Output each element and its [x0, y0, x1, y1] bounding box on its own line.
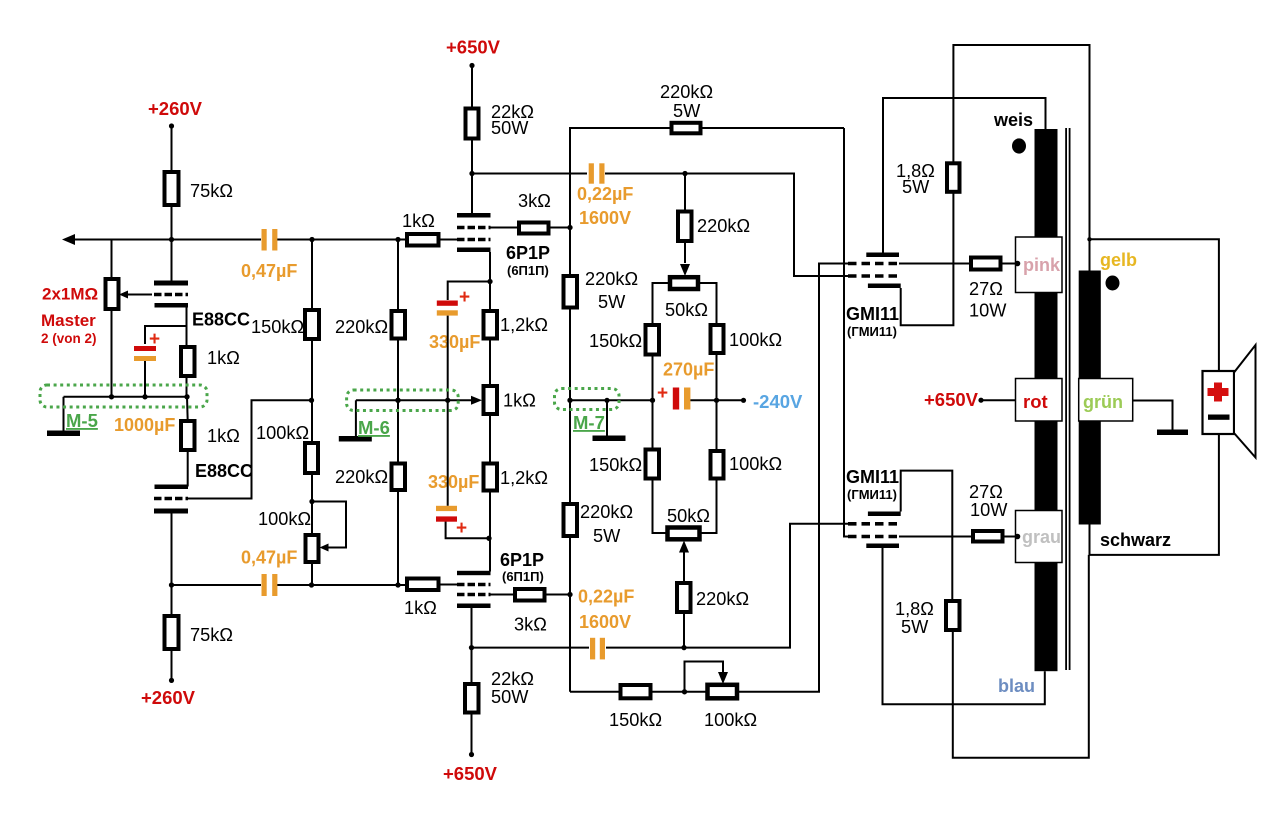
wire (grid2 V6 rail) [844, 128, 848, 537]
arrow down onto P6 [718, 672, 728, 684]
wire [1001, 263, 1017, 265]
wire (gruen to ground) [1133, 401, 1173, 430]
resistor R27 27&#937; [971, 258, 1001, 270]
tube V2 E88CC cathode [155, 485, 189, 490]
svg-text:100kΩ: 100kΩ [729, 330, 782, 350]
svg-text:22kΩ: 22kΩ [491, 669, 534, 689]
wire (top row) [172, 239, 262, 241]
tube V4 6P1P grid1 [457, 583, 491, 587]
node H [395, 582, 400, 587]
svg-text:GMI11: GMI11 [846, 467, 899, 487]
svg-text:0,47µF: 0,47µF [241, 261, 297, 281]
wire [311, 339, 313, 400]
speaker terminal box [1203, 371, 1235, 434]
node secondary top junction [1087, 237, 1091, 241]
ground speaker return [1157, 430, 1188, 436]
svg-text:150kΩ: 150kΩ [589, 455, 642, 475]
wire [701, 127, 845, 129]
svg-text:+: + [657, 383, 668, 404]
svg-text:1600V: 1600V [579, 208, 631, 228]
svg-text:weis: weis [993, 110, 1033, 130]
node S [604, 398, 609, 403]
wiper wire P2 [312, 502, 346, 548]
capacitor C5 330uF minus bar [437, 310, 458, 315]
resistor R9 22k&#937; 50W [466, 109, 479, 139]
wire [311, 400, 313, 443]
tube V6 GMI11 grid1 [848, 522, 899, 526]
transformer primary winding bar B [1035, 291, 1058, 379]
svg-text:5W: 5W [593, 526, 621, 546]
wire (M-6 bus) [356, 399, 473, 401]
wire [698, 283, 717, 325]
wiper wire P1 [127, 294, 152, 296]
svg-text:M-5: M-5 [66, 410, 98, 431]
svg-text:grün: grün [1083, 392, 1123, 412]
svg-text:blau: blau [998, 676, 1035, 696]
svg-text:+650V: +650V [446, 37, 501, 58]
node -240V [741, 398, 746, 403]
arrow output left [62, 234, 75, 245]
node C [309, 237, 314, 242]
capacitor C9 0,22uF bar1 [590, 638, 595, 660]
resistor R3 1k&#937; [181, 421, 195, 450]
wire [684, 241, 686, 263]
svg-text:0,22µF: 0,22µF [577, 184, 633, 204]
wire [111, 240, 113, 280]
potentiometer P5 50k&#937; [668, 528, 700, 540]
wire (cathode V1 down) [186, 308, 188, 348]
phase dot weis [1012, 138, 1026, 153]
svg-text:(6П1П): (6П1П) [502, 569, 544, 584]
svg-text:5W: 5W [598, 292, 626, 312]
wire [277, 239, 407, 241]
wire (output to master pot, arrow left) [112, 239, 172, 241]
wire [311, 562, 313, 585]
wire (V2 grid feedback) [188, 400, 312, 498]
capacitor C1 0,47uF bar2 [272, 229, 277, 251]
wire [171, 649, 173, 680]
wire [737, 264, 848, 692]
wire [171, 585, 173, 616]
tap box grau [1016, 511, 1063, 563]
resistor R7 220k&#937; [392, 311, 406, 339]
svg-text:1,8Ω: 1,8Ω [895, 599, 934, 619]
tube V1 E88CC grid [154, 293, 188, 297]
capacitor C2 1000uF plus bar [134, 346, 156, 351]
svg-text:E88CC: E88CC [195, 461, 253, 481]
svg-text:1,2kΩ: 1,2kΩ [500, 315, 548, 335]
capacitor C9 0,22uF bar2 [600, 638, 605, 660]
resistor R8 220k&#937; [392, 464, 406, 491]
wire (V4 plate down) [471, 608, 473, 684]
wire [549, 227, 571, 229]
speaker cone [1234, 345, 1256, 458]
wire [171, 205, 173, 240]
resistor R19 220k&#937; 5W [564, 504, 578, 536]
wire [700, 479, 717, 534]
capacitor C4 0,47uF bar2 [272, 574, 277, 596]
wire (cathode branch to C2) [145, 326, 187, 344]
wire (V5 screen tap) [899, 263, 971, 265]
svg-text:M-7: M-7 [573, 412, 605, 433]
svg-text:10W: 10W [969, 301, 1007, 321]
wire [651, 691, 708, 693]
svg-text:5W: 5W [902, 177, 930, 197]
wire [489, 414, 491, 464]
resistor R16 22k&#937; 50W [465, 684, 479, 713]
svg-text:220kΩ: 220kΩ [335, 317, 388, 337]
potentiometer P6 100k&#937; [708, 685, 738, 699]
wire (branch to C5) [448, 282, 490, 301]
resistor R18 220k&#937; 5W [564, 276, 578, 308]
resistor R2 1k&#937; [181, 347, 195, 376]
svg-text:220kΩ: 220kΩ [580, 502, 633, 522]
node B (V2 plate node) [169, 582, 174, 587]
svg-text:E88CC: E88CC [192, 310, 250, 330]
capacitor C6 330uF minus bar [436, 506, 457, 511]
svg-text:27Ω: 27Ω [969, 279, 1003, 299]
tube V5 GMI11 grid1 [848, 274, 899, 278]
node D [309, 398, 314, 403]
capacitor C7 0,22uF bar2 [599, 163, 604, 183]
wire [397, 240, 399, 312]
resistor R22 100k&#937; [711, 325, 724, 353]
svg-text:1kΩ: 1kΩ [503, 391, 536, 411]
wire (grid2 V4 to R15) [491, 594, 516, 596]
wire (V6 cathode) [901, 471, 953, 601]
node N [445, 398, 450, 403]
ground M-6 [339, 436, 372, 442]
resistor R13 1,2k&#937; [484, 464, 498, 491]
node +260V (top supply) [169, 123, 174, 128]
tube V5 GMI11 plate [866, 253, 899, 258]
capacitor C8 270uF plus bar [673, 388, 679, 410]
node E [309, 499, 314, 504]
transformer primary winding bar C1 [1035, 421, 1058, 511]
resistor R12 1,2k&#937; [484, 311, 498, 339]
tube V1 E88CC plate [154, 281, 188, 286]
wire [111, 309, 113, 397]
svg-text:6P1P: 6P1P [506, 243, 550, 263]
node X [682, 689, 687, 694]
svg-text:75kΩ: 75kΩ [190, 181, 233, 201]
speaker minus sign [1208, 415, 1230, 420]
capacitor C5 330uF plus bar [437, 301, 458, 306]
resistor R17 220k&#937; 5W [672, 123, 701, 134]
svg-text:100kΩ: 100kΩ [258, 509, 311, 529]
resistor R4 75k&#937; [165, 616, 179, 649]
resistor R24 100k&#937; [711, 451, 724, 479]
wire [653, 283, 671, 325]
wire (secondary top to speaker) [1090, 239, 1219, 371]
node M [395, 398, 400, 403]
resistor R14 1k&#937; [407, 579, 439, 591]
svg-text:50kΩ: 50kΩ [665, 300, 708, 320]
resistor R30 1,8&#937; 5W [946, 601, 960, 630]
measure box M-6 [347, 390, 459, 411]
svg-text:150kΩ: 150kΩ [589, 331, 642, 351]
resistor R28 1,8&#937; 5W [947, 163, 960, 192]
wire [471, 139, 473, 214]
svg-text:gelb: gelb [1100, 250, 1137, 270]
wire (M-5 bus) [64, 396, 188, 398]
node V [714, 398, 719, 403]
wire [683, 553, 685, 584]
tube V5 GMI11 grid2 [848, 262, 899, 266]
wire [144, 361, 146, 397]
svg-text:(ГМИ11): (ГМИ11) [847, 324, 897, 339]
wire [439, 584, 458, 586]
wire [397, 490, 399, 585]
tube V1 E88CC cathode [155, 303, 189, 308]
node J (6P1P-1 plate node) [469, 171, 474, 176]
wire [605, 174, 848, 277]
node +650V top [469, 63, 474, 68]
svg-text:GMI11: GMI11 [846, 304, 899, 324]
wire [171, 240, 173, 281]
svg-text:100kΩ: 100kΩ [704, 710, 757, 730]
wire (V3 cathode down) [489, 252, 491, 311]
svg-text:(6П1П): (6П1П) [507, 263, 549, 278]
wire (cathode fb bottom) [953, 555, 1089, 758]
svg-text:50W: 50W [491, 687, 529, 707]
node T [682, 171, 687, 176]
measure box M-5 [40, 385, 207, 407]
node M5 bus junction cathode [184, 394, 189, 399]
tube V5 GMI11 cathode [868, 284, 901, 289]
svg-text:1kΩ: 1kΩ [402, 211, 435, 231]
wire (y=647.6 coupling row) [472, 647, 590, 649]
resistor R11 3k&#937; [519, 223, 549, 234]
wire (M-7 bus) [570, 399, 652, 401]
capacitor C8 270uF minus bar [684, 388, 690, 410]
svg-text:150kΩ: 150kΩ [251, 317, 304, 337]
speaker plus sign [1208, 383, 1229, 402]
node Q (V4 plate node) [469, 645, 474, 650]
wire (y=173.5 coupling row) [472, 173, 587, 175]
svg-text:Master: Master [41, 311, 96, 330]
svg-text:220kΩ: 220kΩ [696, 589, 749, 609]
capacitor C2 1000uF minus bar [134, 356, 156, 361]
tap box gruen [1079, 379, 1133, 422]
capacitor C7 0,22uF bar1 [589, 163, 594, 183]
svg-text:220kΩ: 220kΩ [585, 269, 638, 289]
wire [277, 584, 407, 586]
svg-text:220kΩ: 220kΩ [697, 216, 750, 236]
transformer core line 2 [1069, 128, 1071, 670]
transformer secondary winding bar D [1079, 271, 1101, 379]
capacitor C4 0,47uF bar1 [262, 574, 267, 596]
wire (cathode fb top) [953, 45, 1089, 271]
svg-text:2 (von 2): 2 (von 2) [41, 331, 97, 346]
tube V3 6P1P plate [457, 213, 491, 218]
svg-text:5W: 5W [901, 617, 929, 637]
wire (bottom row) [172, 584, 262, 586]
wire [447, 316, 449, 401]
svg-text:330µF: 330µF [429, 332, 480, 352]
wire [471, 713, 473, 755]
transformer core line 1 [1065, 128, 1067, 670]
svg-text:1kΩ: 1kΩ [404, 598, 437, 618]
resistor R15 3k&#937; [515, 589, 545, 601]
wire [569, 308, 571, 505]
svg-text:5W: 5W [673, 101, 701, 121]
transformer secondary winding bar E [1079, 421, 1101, 525]
potentiometer P1 2x1M&#937; [106, 279, 119, 309]
wiper arrow P1 [119, 291, 128, 299]
svg-text:1600V: 1600V [579, 612, 631, 632]
tube V4 6P1P grid2 [457, 593, 491, 597]
resistor R10 1k&#937; [407, 234, 439, 246]
wire [75, 239, 112, 241]
wire [683, 612, 685, 648]
capacitor C1 0,47uF bar1 [262, 229, 267, 251]
wire (V2 plate down) [171, 514, 173, 586]
svg-text:2x1MΩ: 2x1MΩ [42, 285, 98, 304]
wire [397, 339, 399, 464]
svg-text:+: + [456, 518, 467, 539]
svg-text:75kΩ: 75kΩ [190, 625, 233, 645]
svg-text:10W: 10W [970, 500, 1008, 520]
svg-text:100kΩ: 100kΩ [256, 423, 309, 443]
node M5 bus junction pot [109, 394, 114, 399]
node +650V rot wire [978, 398, 983, 403]
wire [311, 473, 313, 535]
node Y (pink tap) [1015, 261, 1021, 267]
wire (secondary bottom / schwarz) [1090, 434, 1219, 555]
node F [309, 582, 314, 587]
tube V3 6P1P grid2 [457, 226, 491, 230]
wire [311, 240, 313, 311]
svg-text:1kΩ: 1kΩ [207, 426, 240, 446]
node +650V bottom [469, 752, 474, 757]
potentiometer P2 100k&#937; [306, 535, 319, 562]
wiper link P6 [685, 662, 724, 692]
resistor R20 220k&#937; [678, 212, 692, 242]
wire [1003, 536, 1017, 538]
wire [187, 450, 189, 487]
resistor R29 27&#937; [973, 531, 1003, 542]
wire (screen rail top bend) [570, 128, 672, 228]
svg-text:220kΩ: 220kΩ [660, 82, 713, 102]
wire [569, 228, 571, 277]
svg-text:+: + [149, 329, 160, 350]
wire [981, 399, 1016, 401]
node I [395, 398, 400, 403]
resistor R25 220k&#937; [677, 583, 691, 612]
wire [652, 355, 654, 450]
potentiometer P4 50k&#937; [670, 277, 698, 289]
svg-text:+650V: +650V [924, 389, 979, 410]
phase dot gelb [1106, 276, 1120, 291]
node W [681, 645, 686, 650]
tube V4 6P1P cathode [457, 571, 491, 575]
node M5 bus junction cap [142, 394, 147, 399]
svg-text:+260V: +260V [141, 687, 196, 708]
wire (branch to C6) [446, 522, 489, 539]
wire [186, 376, 188, 397]
resistor R21 150k&#937; [646, 325, 660, 355]
resistor R6 100k&#937; [305, 443, 318, 473]
node P [567, 592, 572, 597]
svg-text:rot: rot [1023, 391, 1048, 412]
tube V3 6P1P cathode [457, 248, 491, 253]
svg-text:(ГМИ11): (ГМИ11) [847, 487, 897, 502]
node +260V bottom [169, 678, 174, 683]
svg-text:-240V: -240V [753, 391, 803, 412]
wire [171, 126, 173, 172]
tube V6 GMI11 grid2 [848, 535, 899, 539]
tube V2 E88CC plate [154, 509, 188, 514]
svg-text:100kΩ: 100kΩ [729, 454, 782, 474]
wire (grid2 V3 to R11) [491, 227, 520, 229]
tube V6 GMI11 plate [866, 544, 899, 549]
wire [606, 524, 848, 648]
wire [684, 174, 686, 212]
wire [716, 353, 718, 451]
wire (V5 plate up) [883, 98, 1046, 253]
wire [471, 66, 473, 109]
svg-text:1,2kΩ: 1,2kΩ [500, 468, 548, 488]
svg-text:220kΩ: 220kΩ [335, 467, 388, 487]
ground M-5 [47, 431, 80, 437]
capacitor C6 330uF plus bar [436, 516, 457, 521]
svg-text:0,22µF: 0,22µF [578, 587, 634, 607]
svg-text:+: + [459, 287, 470, 308]
wire (V5 cathode) [901, 192, 954, 325]
svg-text:+260V: +260V [148, 98, 203, 119]
measure box M-7 [555, 389, 620, 410]
wire (V6 plate down) [883, 548, 1045, 704]
tube V6 GMI11 cathode [868, 512, 901, 517]
wire [489, 491, 491, 572]
svg-text:M-6: M-6 [358, 417, 390, 438]
wire [186, 397, 189, 421]
node K [567, 225, 572, 230]
node Z (grau tap) [1015, 534, 1021, 540]
svg-text:pink: pink [1023, 255, 1061, 275]
node A (E88CC-1 plate node) [169, 237, 174, 242]
resistor R23 150k&#937; [646, 450, 660, 479]
tube V3 6P1P grid1 [457, 238, 491, 242]
resistor R5 150k&#937; [305, 310, 319, 339]
svg-text:270µF: 270µF [663, 360, 714, 380]
svg-text:330µF: 330µF [428, 472, 479, 492]
node U [650, 398, 655, 403]
svg-text:grau: grau [1022, 527, 1061, 547]
wire [489, 339, 491, 387]
svg-text:schwarz: schwarz [1100, 530, 1171, 550]
wire [447, 400, 449, 506]
svg-text:27Ω: 27Ω [969, 482, 1003, 502]
tube V2 E88CC grid [154, 497, 188, 501]
wire (feedback row) [570, 691, 621, 693]
svg-text:1000µF: 1000µF [114, 415, 175, 435]
transformer primary winding bar C2 [1035, 563, 1058, 672]
wire [653, 479, 668, 534]
svg-text:0,47µF: 0,47µF [241, 548, 297, 568]
tap box pink [1016, 237, 1063, 293]
wire (to ground M-7) [606, 400, 608, 435]
svg-text:3kΩ: 3kΩ [518, 191, 551, 211]
resistor R1 75k&#937; [165, 172, 179, 205]
resistor R26 150k&#937; [621, 685, 651, 698]
wire (to ground M-5) [63, 397, 65, 431]
svg-text:150kΩ: 150kΩ [609, 710, 662, 730]
arrow up onto P5 [679, 541, 689, 553]
node R (M-7 bus) [567, 398, 572, 403]
arrow down onto P4 [680, 264, 690, 276]
